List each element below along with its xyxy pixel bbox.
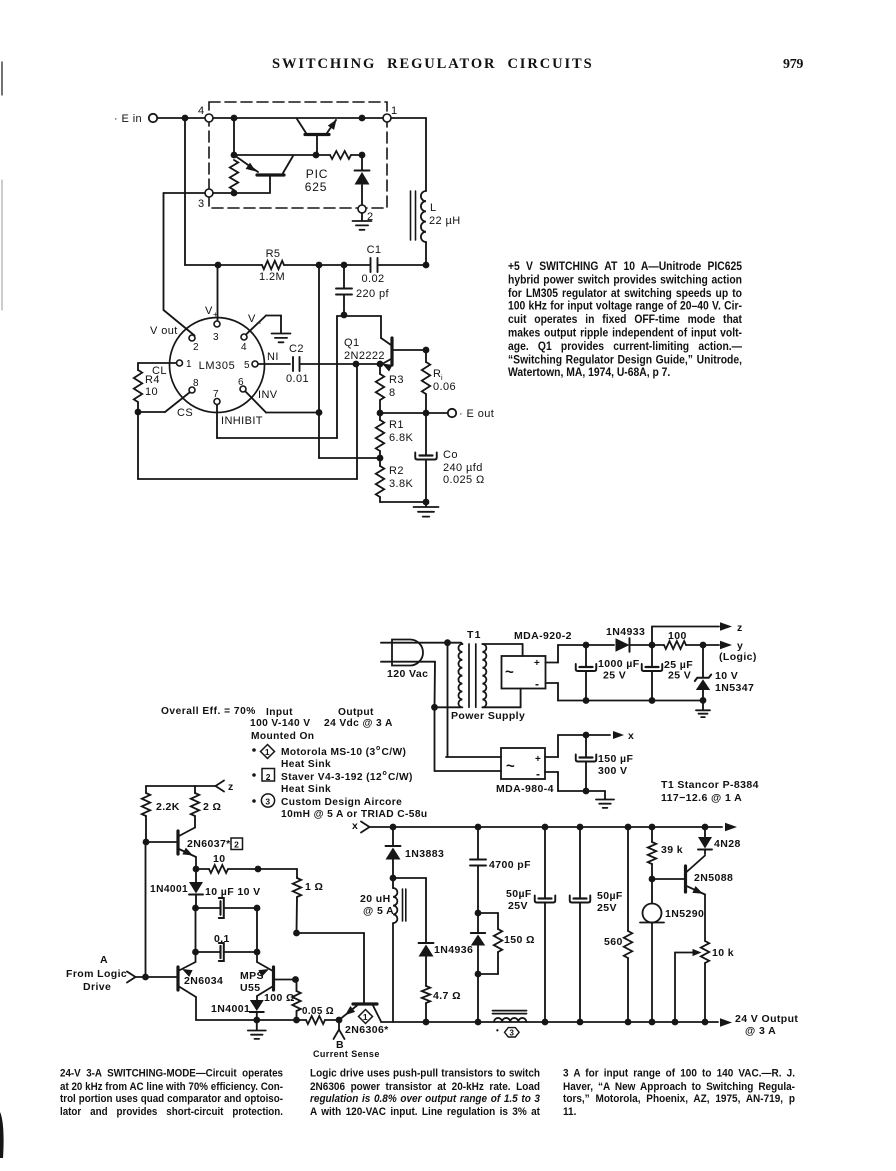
pin 4 V- of LM305 [241, 334, 247, 353]
label 1N4933 [606, 626, 645, 638]
svg-text:1N5347: 1N5347 [715, 682, 754, 694]
page bottom-left scan blob [0, 1112, 4, 1158]
wire internal middle node [234, 152, 365, 159]
svg-text:Custom Design Aircore: Custom Design Aircore [281, 797, 402, 808]
svg-text:560: 560 [604, 936, 623, 948]
svg-text:MDA-920-2: MDA-920-2 [514, 630, 572, 642]
wire lower bridge inputs [435, 757, 501, 771]
label A From Logic Drive [66, 954, 127, 993]
svg-text:R2: R2 [389, 465, 404, 477]
svg-text:INHIBIT: INHIBIT [221, 415, 263, 427]
svg-text:T1: T1 [467, 629, 482, 641]
label 1000uF 25V [598, 658, 640, 682]
input terminal E in [114, 113, 157, 125]
label 0.05 ohm [302, 1006, 334, 1017]
label 4700pF [489, 859, 531, 871]
svg-text:Drive: Drive [83, 981, 111, 993]
label 10 [213, 853, 225, 865]
clamp diode at 150 ohm [471, 913, 485, 977]
label C2 0.01 [286, 343, 309, 385]
pin 2 of PIC625 [358, 205, 374, 223]
wire V+ riser [217, 265, 219, 321]
label 220 pf [356, 288, 390, 300]
svg-text:2 Ω: 2 Ω [203, 801, 221, 813]
label 2.2K [156, 801, 180, 813]
label Ri 0.06 [433, 368, 456, 393]
svg-text:8: 8 [389, 387, 396, 399]
label Current Sense [313, 1049, 380, 1059]
resistor 150 ohm loop [478, 913, 502, 974]
resistor 2.2K [142, 786, 150, 845]
svg-text:INV: INV [258, 389, 278, 401]
transistor 2N5088 [686, 856, 706, 942]
pin 1 of PIC625 [383, 105, 398, 122]
label Mounted On [251, 731, 314, 742]
transistor 2N6037 [146, 828, 199, 873]
svg-text:1 Ω: 1 Ω [305, 881, 323, 893]
svg-text:Mounted On: Mounted On [251, 731, 314, 742]
wire z branch [652, 622, 732, 645]
pin 5 NI of LM305 [244, 360, 258, 371]
svg-text:117−12.6 @ 1 A: 117−12.6 @ 1 A [661, 792, 742, 804]
svg-text:PIC: PIC [306, 167, 328, 181]
svg-text:o: o [376, 745, 380, 752]
svg-text:150 µF: 150 µF [598, 753, 633, 765]
LM305 package circle [170, 318, 265, 413]
label R4 10 [145, 374, 160, 398]
svg-text:0.06: 0.06 [433, 381, 456, 393]
svg-text:· E in: · E in [114, 113, 142, 125]
svg-text:10: 10 [145, 386, 158, 398]
optocoupler diode 4N28 [698, 827, 712, 854]
input A feather [127, 972, 136, 983]
label 100 [668, 630, 687, 642]
capacitor 1000uF 25V [576, 645, 597, 701]
svg-text:22 µH: 22 µH [429, 215, 461, 227]
svg-text:C2: C2 [289, 343, 304, 355]
svg-text:100: 100 [668, 630, 687, 642]
wire INHIBIT bottom run [217, 405, 337, 438]
ground at zener [696, 700, 710, 717]
label B [336, 1039, 344, 1051]
svg-text:20 uH: 20 uH [360, 893, 391, 905]
ground at driver stage [248, 1020, 266, 1039]
wire clamp branch to output choke node [475, 974, 482, 1025]
svg-text:1.2M: 1.2M [259, 271, 285, 283]
resistor 4.7 ohm [422, 986, 430, 1025]
svg-text:25 V: 25 V [668, 670, 691, 682]
note 3 custom aircore inductor [252, 794, 427, 820]
ground at LM305 V- [272, 334, 291, 343]
capacitor 50uF 25V left [535, 827, 556, 1025]
label MDA-920-2 [514, 630, 572, 642]
wire AC hot to transformer and lower bridge [381, 639, 461, 757]
svg-text:C/W): C/W) [382, 747, 407, 758]
resistor R4 10 [134, 363, 142, 415]
resistor 560 [624, 827, 632, 1025]
note 2 Staver heat sink [252, 769, 413, 796]
svg-text:MPS: MPS [240, 970, 264, 982]
label Output 24Vdc @ 3A [324, 707, 393, 729]
top DC rail [370, 823, 738, 831]
running head SWITCHING REGULATOR CIRCUITS [272, 56, 594, 73]
svg-text:10 V: 10 V [715, 670, 738, 682]
bridge rectifier MDA-920-2 [502, 656, 546, 691]
wire secondary to bridge [482, 644, 522, 707]
wire R5/C1 row [185, 262, 426, 269]
resistor Ri 0.06 [422, 350, 430, 416]
wire top rail inside PIC625 [213, 115, 383, 122]
badge 1 diamond at 2N6306 [359, 1010, 373, 1024]
svg-text:2N5088: 2N5088 [694, 872, 733, 884]
svg-text:3: 3 [265, 797, 270, 807]
svg-text:240 µfd: 240 µfd [443, 462, 483, 474]
svg-text:1N4936: 1N4936 [434, 944, 473, 956]
resistor 0.05 ohm [306, 1016, 342, 1024]
svg-text:1N5290: 1N5290 [665, 908, 704, 920]
internal bias resistor of PIC625 [230, 160, 238, 190]
svg-text:Heat Sink: Heat Sink [281, 784, 331, 795]
label 4N28 [714, 838, 741, 850]
svg-text:0.05 Ω: 0.05 Ω [302, 1006, 334, 1017]
output terminal E out [448, 408, 494, 420]
svg-text:LM305: LM305 [199, 360, 236, 372]
internal driver transistor of PIC625 [234, 155, 293, 192]
svg-text:~: ~ [506, 758, 515, 775]
resistor 100 ohm [292, 980, 300, 1021]
svg-text:3.8K: 3.8K [389, 478, 413, 490]
svg-text:V out: V out [150, 325, 178, 337]
capacitor C2 0.01 [259, 357, 300, 371]
label T1 [467, 629, 482, 641]
output choke aircore [493, 1011, 527, 1022]
svg-text:x: x [352, 820, 358, 832]
label Co 240ufd 0.025 [443, 449, 485, 486]
label 10uF 10V [205, 886, 261, 898]
svg-text:+: + [535, 754, 541, 765]
svg-text:· E out: · E out [459, 408, 494, 420]
label 120 Vac [387, 668, 428, 680]
svg-text:2N6037*: 2N6037* [187, 838, 231, 850]
pin 7 INHIBIT of LM305 [213, 389, 220, 405]
svg-text:24 Vdc @ 3 A: 24 Vdc @ 3 A [324, 718, 393, 729]
bridge rectifier MDA-980-4 [501, 748, 545, 781]
svg-text:1000 µF: 1000 µF [598, 658, 640, 670]
label 0.1 [214, 933, 230, 945]
svg-text:Output: Output [338, 707, 374, 718]
svg-text:4700 pF: 4700 pF [489, 859, 531, 871]
pin 4 of PIC625 [198, 105, 213, 122]
svg-text:1: 1 [363, 1012, 368, 1022]
svg-text:@ 5 A: @ 5 A [363, 905, 394, 917]
svg-text:Overall Eff. = 70%: Overall Eff. = 70% [161, 706, 256, 717]
potentiometer 10k [672, 941, 710, 1025]
svg-text:Motorola MS-10 (3: Motorola MS-10 (3 [281, 747, 376, 758]
svg-text:10 µF 10 V: 10 µF 10 V [205, 886, 261, 898]
input B feather [334, 1020, 345, 1039]
label INHIBIT [221, 415, 263, 427]
page number 979 [783, 57, 803, 73]
svg-text:1N4001: 1N4001 [211, 1003, 250, 1015]
label 1N4936 [434, 944, 473, 956]
wire CS to R4 node [138, 393, 190, 413]
wire pin4 node to internal node [231, 118, 238, 158]
inductor L 22uH [411, 191, 427, 242]
svg-text:1N4933: 1N4933 [606, 626, 645, 638]
page left edge scan line [1, 62, 3, 310]
internal base resistor of PIC625 output stage [330, 151, 351, 159]
label R2 3.8K [389, 465, 413, 490]
wire 10-ohm node to 1 ohm [258, 868, 297, 870]
wire inductor to C1 row [423, 242, 430, 268]
wire CL to R4 [138, 362, 176, 364]
label CS [177, 407, 193, 419]
svg-text:625: 625 [305, 180, 327, 194]
svg-text:2: 2 [234, 840, 239, 850]
label Input 100V-140V [250, 707, 310, 729]
label R1 6.8K [389, 419, 413, 444]
transformer T1 [458, 643, 486, 708]
wire R2 bottom to ground node [380, 501, 426, 503]
capacitor 50uF 25V right [570, 827, 591, 1025]
svg-text:From Logic: From Logic [66, 968, 127, 980]
label INV [258, 389, 278, 401]
svg-text:100 Ω: 100 Ω [264, 992, 295, 1004]
diode 1N4001 lower [250, 1000, 264, 1023]
label CL [152, 365, 167, 377]
svg-text:4N28: 4N28 [714, 838, 741, 850]
svg-text:5: 5 [244, 360, 250, 371]
svg-text:z: z [228, 781, 234, 793]
wire bridge minus rail [546, 683, 704, 704]
label 20uH @ 5A [360, 893, 394, 917]
svg-text:(Logic): (Logic) [719, 651, 757, 663]
pin 1 CL of LM305 [177, 359, 193, 370]
wire z to divider [146, 785, 216, 787]
diode 1N4936 [419, 943, 434, 986]
ground at Co [414, 502, 439, 517]
svg-text:R4: R4 [145, 374, 160, 386]
capacitor 0.1 [196, 943, 258, 961]
label V- [248, 313, 262, 328]
label y (Logic) [719, 640, 757, 663]
wire AC neutral to primary bottom and lower bridge [381, 662, 461, 771]
label 1N5290 [665, 908, 704, 920]
label R3 8 [389, 374, 404, 399]
label 117-12.6 @ 1 A [661, 792, 742, 804]
svg-text:~: ~ [505, 664, 514, 681]
svg-text:1: 1 [265, 747, 270, 757]
wire pin 3 internal [213, 190, 270, 197]
svg-text:U55: U55 [240, 982, 260, 994]
svg-text:Q1: Q1 [344, 337, 359, 349]
badge 3 hexagon at choke [496, 1026, 519, 1038]
svg-text:39 k: 39 k [661, 844, 683, 856]
svg-text:CS: CS [177, 407, 193, 419]
label 2N6037* [187, 838, 231, 850]
current regulator diode 1N5290 [640, 879, 664, 1025]
wire Vout to PIC pin3 riser [164, 193, 206, 336]
resistor 39k [648, 827, 656, 882]
svg-text:10 k: 10 k [712, 947, 734, 959]
svg-text:4.7 Ω: 4.7 Ω [433, 990, 461, 1002]
resistor 10 [196, 865, 261, 873]
label V out [150, 325, 178, 337]
svg-text:50µF: 50µF [506, 888, 532, 900]
internal catch diode of PIC625 [355, 155, 370, 205]
svg-text:4: 4 [198, 105, 205, 117]
label L 22uH [429, 202, 461, 227]
svg-text:0.025 Ω: 0.025 Ω [443, 474, 485, 486]
label 4.7 ohm [433, 990, 461, 1002]
svg-text:x: x [628, 730, 634, 742]
svg-text:0.02: 0.02 [361, 273, 384, 285]
label 100 ohm [264, 992, 295, 1004]
wire CS/CL return to NI [138, 364, 357, 479]
PIC625 hybrid dashed package outline [209, 102, 387, 208]
label 24 V Output @ 3 A [735, 1013, 798, 1037]
svg-text:3: 3 [213, 332, 219, 343]
label 2 ohm [203, 801, 221, 813]
svg-text:4: 4 [241, 342, 247, 353]
wire left cap rail [192, 908, 260, 955]
wire 39k node to 2N5088 base [652, 878, 684, 880]
svg-text:Co: Co [443, 449, 458, 461]
zener diode 10V 1N5347 [695, 645, 711, 704]
figure caption for +5V switching regulator [508, 261, 742, 381]
resistor 100 [664, 641, 686, 649]
svg-text:-: - [535, 677, 539, 691]
svg-text:25 V: 25 V [603, 670, 626, 682]
wire INV to feedback riser [246, 392, 323, 416]
svg-text:Power Supply: Power Supply [451, 710, 525, 722]
svg-text:•: • [496, 1026, 499, 1035]
resistor R5 1.2M [262, 261, 284, 269]
svg-text:C/W): C/W) [388, 772, 413, 783]
svg-text:2N2222: 2N2222 [344, 350, 385, 362]
resistor R2 3.8K [376, 458, 430, 505]
bottom caption column 2 [310, 1068, 540, 1119]
bottom caption column 3 [563, 1068, 795, 1119]
resistor R3 8 [376, 364, 384, 416]
svg-text:8: 8 [193, 378, 199, 389]
label x output [628, 730, 634, 742]
svg-text:L: L [430, 202, 437, 214]
label T1 Stancor P-8384 [661, 779, 759, 791]
svg-text:NI: NI [267, 351, 279, 363]
label PIC 625 [305, 167, 328, 194]
label 10k [712, 947, 734, 959]
svg-text:R1: R1 [389, 419, 404, 431]
ground at PIC625 pin 2 [353, 213, 372, 230]
svg-text:25V: 25V [508, 900, 528, 912]
svg-text:Current Sense: Current Sense [313, 1049, 380, 1059]
svg-text:MDA-980-4: MDA-980-4 [496, 783, 554, 795]
svg-text:1: 1 [186, 359, 192, 370]
AC plug 120 Vac [392, 640, 423, 666]
resistor R1 6.8K [376, 413, 384, 461]
wire 100 to y output [686, 641, 732, 649]
pin 3 of PIC625 [198, 189, 213, 210]
diode 1N4933 [616, 638, 630, 651]
pin 2 Vout of LM305 [189, 335, 199, 353]
svg-text:Input: Input [266, 707, 293, 718]
wire INHIBIT riser and top link [337, 316, 381, 438]
label 560 [604, 936, 623, 948]
svg-text:220 pf: 220 pf [356, 288, 390, 300]
wire diode to 100 resistor [630, 642, 665, 649]
wire freewheel node to snubber [393, 878, 426, 942]
pin 6 INV of LM305 [238, 377, 246, 392]
label MDA-980-4 [496, 783, 554, 795]
svg-text:10: 10 [213, 853, 225, 865]
bottom caption column 1 [60, 1068, 283, 1119]
svg-text:100 V-140 V: 100 V-140 V [250, 718, 310, 729]
svg-text:1N4001: 1N4001 [150, 884, 188, 895]
svg-text:3: 3 [509, 1029, 514, 1038]
svg-text:2N6306*: 2N6306* [345, 1024, 389, 1036]
label V+ [205, 305, 218, 319]
label 1 ohm [305, 881, 323, 893]
svg-text:R3: R3 [389, 374, 404, 386]
note 1 Motorola heat sink [252, 745, 406, 771]
svg-text:3: 3 [198, 198, 205, 210]
wire E-in riser to R5 row [184, 118, 186, 265]
wire local ground rail [196, 1017, 306, 1024]
capacitor 25uF 25V [642, 645, 663, 701]
wire NI row [300, 361, 383, 368]
capacitor C1 0.02 [371, 258, 378, 272]
label 1N4001 upper [150, 884, 188, 895]
resistor 2 ohm [191, 786, 199, 828]
pin 3 V+ of LM305 [213, 321, 220, 343]
svg-text:+: + [534, 658, 540, 669]
diode 1N3883 [386, 827, 401, 881]
wire E out row [380, 412, 448, 414]
wire lower bridge plus to x [545, 731, 624, 757]
input x feather [352, 820, 370, 833]
wire base rail down to A node [142, 842, 149, 980]
svg-text:z: z [737, 622, 743, 634]
label 2N6034 [184, 975, 223, 987]
svg-text:T1 Stancor P-8384: T1 Stancor P-8384 [661, 779, 759, 791]
capacitor 220pf [336, 265, 352, 318]
wire 1ohm node to 2N6306 base [297, 933, 365, 1003]
capacitor 4700pF [470, 827, 486, 916]
internal output transistor of PIC625 [297, 119, 337, 154]
svg-text:1N3883: 1N3883 [405, 848, 444, 860]
svg-text:V: V [205, 305, 213, 317]
svg-text:0.1: 0.1 [214, 933, 230, 945]
label 150uF 300V [598, 753, 633, 777]
wire E-in to PIC pin 4 [158, 115, 206, 122]
transistor 2N6034 [178, 952, 196, 1020]
ground at lower bridge [596, 800, 614, 808]
svg-text:Staver V4-3-192 (12: Staver V4-3-192 (12 [281, 772, 382, 783]
resistor 1 ohm [293, 869, 301, 936]
label LM305 [199, 360, 236, 372]
label Q1 2N2222 [344, 337, 385, 362]
svg-text:C1: C1 [367, 244, 382, 256]
svg-text:2: 2 [193, 342, 199, 353]
transistor MPS U55 [257, 952, 299, 1000]
svg-text:0.01: 0.01 [286, 373, 309, 385]
svg-text:1: 1 [391, 105, 398, 117]
svg-text:300 V: 300 V [598, 765, 627, 777]
label 1N3883 [405, 848, 444, 860]
transistor Q1 2N2222 [381, 316, 429, 372]
svg-text:@ 3 A: @ 3 A [745, 1025, 776, 1037]
